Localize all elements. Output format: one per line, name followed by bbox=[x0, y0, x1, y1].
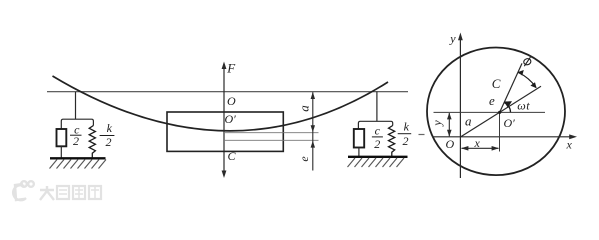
left damper rod lower bbox=[60, 146, 62, 158]
angle wt arc bbox=[504, 101, 512, 112]
svg-text:y: y bbox=[430, 120, 444, 127]
rotor block rectangle bbox=[167, 112, 283, 151]
static equilibrium line (main horizontal line) bbox=[47, 91, 408, 93]
right support link wire bbox=[376, 91, 378, 121]
deflected shaft curve bbox=[53, 76, 389, 131]
svg-text:e: e bbox=[297, 156, 311, 162]
right ground bbox=[348, 156, 408, 158]
svg-text:F: F bbox=[226, 61, 236, 76]
svg-text:x: x bbox=[566, 138, 573, 152]
dimension a (vertical, right of block) bbox=[311, 92, 315, 171]
svg-text:O: O bbox=[446, 137, 455, 151]
rotor disc circle bbox=[427, 48, 565, 176]
svg-text:y: y bbox=[449, 31, 456, 45]
label k/2 left bbox=[100, 121, 115, 149]
right ground hatching bbox=[348, 158, 405, 167]
F axis (vertical centerline) bbox=[222, 62, 227, 179]
right spring k/2 bbox=[389, 126, 395, 157]
right damper rod lower bbox=[358, 148, 360, 157]
vertical extension below O' bbox=[499, 112, 501, 151]
svg-text:k: k bbox=[107, 121, 113, 135]
y dimension (left of y axis) bbox=[447, 113, 452, 137]
right support top bar bbox=[358, 121, 392, 129]
horizontal line through O' bbox=[434, 111, 546, 113]
extension line through O' level bbox=[225, 132, 319, 134]
left spring k/2 bbox=[89, 126, 95, 159]
svg-text:O′: O′ bbox=[225, 112, 237, 126]
svg-text:O′: O′ bbox=[504, 116, 516, 130]
left support link wire bbox=[75, 92, 77, 120]
label c/2 right bbox=[372, 123, 383, 151]
watermark logo bbox=[13, 181, 34, 200]
watermark text bbox=[40, 186, 101, 200]
svg-text:2: 2 bbox=[374, 137, 380, 151]
x axis bbox=[432, 134, 577, 139]
svg-text:2: 2 bbox=[73, 134, 79, 148]
node O' junction dot bbox=[498, 111, 501, 114]
svg-text:O: O bbox=[227, 94, 236, 108]
svg-text:a: a bbox=[465, 114, 472, 129]
svg-text:x: x bbox=[474, 136, 481, 150]
left support top bar bbox=[61, 119, 93, 129]
left damper (dashpot) bbox=[57, 129, 67, 146]
svg-text:C: C bbox=[492, 76, 501, 91]
angle phi arc bbox=[518, 70, 537, 88]
left ground hatching bbox=[50, 160, 107, 169]
line O-O' extended bbox=[460, 86, 541, 137]
label phi bbox=[523, 57, 532, 66]
svg-text:ωt: ωt bbox=[517, 99, 530, 113]
y axis bbox=[458, 33, 463, 179]
svg-text:2: 2 bbox=[403, 134, 409, 148]
svg-text:a: a bbox=[297, 105, 312, 112]
right damper (dashpot) bbox=[354, 129, 364, 148]
svg-text:e: e bbox=[489, 93, 495, 108]
extension line through C level bbox=[224, 139, 319, 141]
svg-text:k: k bbox=[404, 119, 410, 133]
svg-text:2: 2 bbox=[106, 135, 112, 149]
svg-text:c: c bbox=[375, 123, 381, 137]
stray dash bbox=[419, 134, 425, 136]
label k/2 right bbox=[398, 119, 412, 147]
left ground bbox=[50, 157, 106, 159]
x dimension (O to below O') bbox=[461, 146, 499, 151]
label c/2 left bbox=[70, 123, 82, 149]
dimension e (vertical, outside arrows) bbox=[311, 141, 315, 148]
line O'-C bbox=[500, 63, 522, 112]
